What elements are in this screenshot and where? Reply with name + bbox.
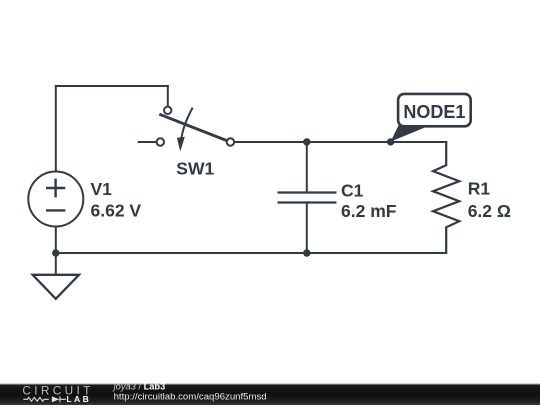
wire main horizontal rail (switch to resistor corner) (235, 141, 448, 143)
svg-text:NODE1: NODE1 (403, 102, 465, 122)
switch SW1 lever (159, 114, 226, 140)
node NODE1 callout tail (391, 125, 429, 142)
switch SW1 throw terminal 2 (227, 138, 234, 145)
svg-text:C1: C1 (341, 181, 364, 201)
wire switch unused throw stub (138, 141, 156, 143)
junction dot capacitor bottom (303, 249, 310, 256)
svg-text:V1: V1 (91, 179, 113, 199)
svg-text:SW1: SW1 (176, 159, 214, 179)
footer bar (0, 384, 540, 406)
switch SW1 pole terminal (164, 107, 171, 114)
wire capacitor bottom lead (306, 203, 308, 255)
switch SW1 throw terminal 1 (open) (157, 138, 164, 145)
junction dot NODE1 (387, 138, 394, 145)
node NODE1 callout box (398, 94, 471, 126)
svg-text:LAB: LAB (66, 394, 91, 404)
wire V1 bottom to ground (55, 226, 57, 276)
wire top-left vertical (V1 top to top rail) (55, 86, 57, 172)
wire bottom rail horizontal (56, 252, 446, 254)
voltage source V1 (28, 172, 83, 227)
switch SW1 actuation arrow (177, 108, 193, 152)
svg-text:http://circuitlab.com/caq96zun: http://circuitlab.com/caq96zunf5msd (114, 392, 267, 403)
CircuitLab logo resistor-diode glyph (23, 396, 66, 402)
wire capacitor top lead (306, 141, 308, 193)
capacitor C1 (278, 193, 337, 203)
junction dot V1 ground (52, 249, 59, 256)
ground (33, 275, 79, 299)
wire top rail horizontal (55, 85, 169, 87)
svg-text:R1: R1 (468, 179, 491, 199)
svg-text:6.62 V: 6.62 V (91, 201, 142, 221)
svg-text:6.2 mF: 6.2 mF (341, 201, 397, 221)
svg-text:joya3 / Lab3: joya3 / Lab3 (112, 381, 166, 391)
wire drop to switch pole (167, 85, 169, 106)
junction dot capacitor top (303, 138, 310, 145)
svg-text:6.2 Ω: 6.2 Ω (468, 201, 511, 221)
resistor R1 (433, 141, 459, 254)
